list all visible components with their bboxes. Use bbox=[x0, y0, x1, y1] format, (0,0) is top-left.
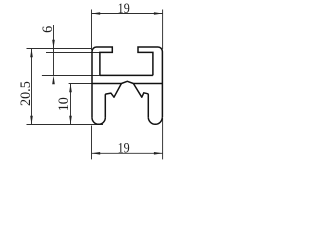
svg-text:6: 6 bbox=[40, 26, 56, 33]
extension line left y48 (top of profile, for 20.5 and 6) bbox=[27, 48, 93, 50]
profile: right leg U bottom bbox=[148, 117, 162, 124]
extension line bottom-right vertical bbox=[162, 118, 164, 159]
extension line top-right bbox=[162, 10, 164, 50]
profile: cavity bottom line A bbox=[100, 74, 153, 76]
extension line left y52.5 (tab underside) bbox=[46, 52, 100, 54]
svg-text:19: 19 bbox=[118, 0, 130, 16]
arrowhead 6 upper (pointing down) bbox=[52, 40, 55, 49]
svg-text:20.5: 20.5 bbox=[18, 81, 34, 106]
arrowhead top-left bbox=[92, 12, 101, 15]
arrowhead 20.5 top bbox=[30, 49, 33, 58]
arrowhead 20.5 bottom bbox=[30, 116, 33, 125]
arrowhead bottom-right bbox=[154, 152, 163, 155]
profile: right inner wall + right tab + top-right corner + right wall bbox=[138, 47, 162, 117]
extension line left y75.7 (cavity bottom) bbox=[42, 75, 100, 77]
dimension line 19 bottom bbox=[92, 152, 163, 154]
profile: right diagonal + right barb + right leg inner wall bbox=[133, 84, 148, 118]
profile: left wall + top-left corner + left tab + inner wall bbox=[92, 47, 112, 118]
dimension line 20.5 bbox=[31, 49, 33, 125]
svg-text:10: 10 bbox=[56, 97, 72, 111]
dimension line 6 bbox=[53, 25, 55, 76]
extension line bottom y124.6 bbox=[27, 124, 104, 126]
dimension line 10 bbox=[70, 84, 72, 125]
arrowhead top-right bbox=[154, 12, 163, 15]
extension line top-left bbox=[91, 10, 93, 51]
profile: left leg U bottom bbox=[92, 118, 105, 125]
arrowhead 6 lower (pointing up) bbox=[52, 76, 55, 85]
profile: bottom section top edge B with center bump bbox=[92, 81, 162, 83]
arrowhead 10 top bbox=[69, 84, 72, 93]
extension line left y83.7 (bottom section top) bbox=[69, 83, 92, 85]
svg-text:19: 19 bbox=[118, 139, 130, 155]
arrowhead bottom-left bbox=[92, 152, 101, 155]
dimension line 19 top bbox=[92, 13, 163, 15]
profile: left diagonal + left barb + left leg inner wall bbox=[105, 84, 121, 118]
extension line bottom-left vertical bbox=[91, 126, 93, 160]
arrowhead 10 bottom bbox=[69, 116, 72, 125]
